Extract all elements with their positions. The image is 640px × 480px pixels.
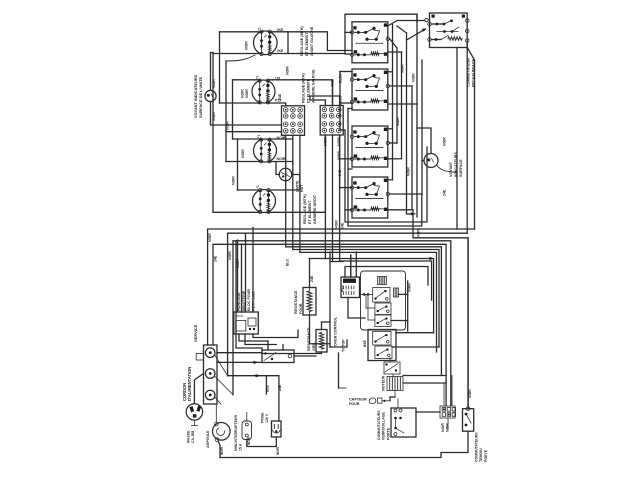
svg-text:GRIL: GRIL: [312, 341, 316, 351]
receptacle prise 120v: [272, 421, 282, 437]
wire lower bus D: [213, 244, 446, 406]
wire grid right col drops: [324, 135, 326, 259]
wire top feed bus: [345, 14, 417, 53]
wire plug up: [194, 374, 203, 404]
svg-text:VOYANT INDICATEURS: VOYANT INDICATEURS: [193, 74, 198, 118]
wire oven control left: [330, 261, 343, 263]
wire to grid row4: [226, 131, 282, 133]
wire lower bus B: [228, 233, 468, 376]
mini switch interrupteur: [242, 421, 252, 440]
wire left bus 4: [232, 80, 234, 139]
terminal block grid right: [320, 106, 343, 136]
svg-text:AVANT GAUCHE: AVANT GAUCHE: [310, 26, 314, 56]
oven lamp ampoule: [213, 423, 231, 441]
svg-text:NOIR: NOIR: [220, 446, 224, 455]
wire mini bottom: [247, 437, 276, 447]
wire S2 out b: [390, 85, 413, 87]
wire lower bus N: [413, 210, 468, 409]
wire oven control bottom: [348, 298, 365, 319]
wire resistance gril top: [321, 322, 323, 330]
svg-text:JKE: JKE: [331, 80, 335, 87]
warmer switch commutateur rechauffage: [430, 13, 468, 48]
wire pilot2 top: [417, 128, 431, 153]
wire S1 diag to 406: [397, 26, 407, 33]
wire jumble b: [236, 241, 262, 354]
power plug prise de courant: [186, 404, 202, 420]
terminal ring top right: [425, 18, 428, 21]
svg-text:NOIR: NOIR: [245, 41, 249, 50]
wire motor to connector horizontal: [403, 375, 446, 377]
wire stub 266: [265, 376, 267, 394]
relay K4: [373, 332, 391, 346]
wire s4 lower-left: [345, 130, 352, 210]
svg-text:*1: *1: [257, 135, 261, 138]
svg-text:ARRIERE GAUCHE: ARRIERE GAUCHE: [311, 69, 315, 103]
svg-text:NOIR: NOIR: [245, 89, 249, 98]
infinite switch S1: [352, 22, 388, 63]
wire S1 out b diagonal: [390, 39, 398, 48]
wire left bus 3: [225, 61, 227, 162]
svg-text:NOIR: NOIR: [277, 157, 286, 161]
wire S2 out c: [388, 103, 417, 105]
svg-text:NOIR: NOIR: [443, 137, 447, 146]
clock assembly horloge: [234, 312, 258, 334]
svg-text:*1: *1: [256, 76, 260, 79]
power supply terminal block: [204, 345, 218, 404]
svg-text:NOIR: NOIR: [247, 436, 251, 445]
wire E4 top: [238, 189, 261, 191]
svg-text:MOTEUR: MOTEUR: [382, 375, 386, 391]
wire switch left links: [340, 72, 345, 131]
wire resistance four bottom: [310, 315, 331, 344]
wire rv 422: [421, 60, 423, 194]
relay board connector strip: [378, 277, 387, 285]
svg-text:RETF. LINE: RETF. LINE: [252, 291, 256, 311]
wire S1 out c: [388, 51, 402, 53]
wire jumble c: [267, 341, 269, 350]
fan relay BA: [384, 362, 400, 374]
wire rv 401: [401, 52, 403, 159]
svg-text:NOIR: NOIR: [335, 220, 339, 229]
wire porte drops: [443, 383, 445, 406]
svg-text:15 A: 15 A: [238, 443, 242, 451]
wire relay board left dots: [367, 293, 370, 296]
svg-text:NOIR: NOIR: [324, 137, 328, 146]
broil element resistance gril: [316, 330, 327, 353]
svg-text:24E: 24E: [278, 384, 282, 391]
wire lower bus K: [347, 267, 428, 286]
infinite switch S2: [352, 69, 388, 110]
wire oven control feeds: [344, 267, 346, 278]
wire S4 out a: [388, 179, 393, 181]
wire row 222: [345, 147, 427, 222]
wire ampoule bottom: [218, 441, 220, 458]
wire E3 bottom: [226, 161, 261, 163]
wire rv 417: [416, 14, 418, 217]
relay K1 pad: [394, 288, 399, 297]
relay K2: [375, 303, 391, 315]
svg-text:24E: 24E: [310, 275, 314, 282]
wire mini top stub: [246, 413, 248, 422]
svg-text:24E: 24E: [443, 189, 447, 196]
wire jumble e: [330, 340, 347, 347]
infinite switch S4: [352, 177, 388, 218]
pilot lamp DS2 surface indicator right: [424, 154, 438, 168]
wire rv 406: [406, 33, 408, 214]
wire small relay right: [294, 355, 316, 357]
terminal block side lug: [196, 354, 203, 361]
svg-text:NOIR: NOIR: [286, 66, 290, 75]
svg-text:BLC: BLC: [286, 258, 290, 266]
svg-text:ET ELEMENT: ET ELEMENT: [305, 32, 309, 56]
svg-text:NOIR: NOIR: [208, 233, 212, 242]
wire warmer diagonal right: [467, 48, 474, 61]
wire S2 out a: [388, 71, 393, 73]
relay board outline: [361, 271, 406, 330]
svg-text:OVEN CONTROL: OVEN CONTROL: [334, 316, 338, 346]
svg-text:*1: *1: [258, 27, 262, 30]
wire S3 out c: [388, 158, 402, 160]
svg-text:NOIR: NOIR: [241, 89, 245, 98]
wire S3 out a: [388, 128, 393, 130]
wire door switch right: [416, 411, 440, 413]
svg-text:24E: 24E: [214, 255, 218, 262]
wire E3 top: [233, 138, 262, 140]
svg-text:AMPOULE: AMPOULE: [206, 430, 210, 448]
svg-text:RESISTANCE: RESISTANCE: [307, 327, 311, 351]
svg-text:REGLAGE (MTH): REGLAGE (MTH): [300, 26, 304, 56]
wire S4 out c: [388, 209, 412, 211]
svg-text:PRISE: PRISE: [261, 412, 265, 423]
wire rv 392: [392, 25, 394, 180]
wire row 226: [348, 169, 422, 226]
svg-text:NOIR: NOIR: [441, 423, 445, 432]
limit switch circle: [279, 168, 291, 180]
door monitor switch: [463, 409, 474, 432]
wire lower bus A: [208, 229, 475, 345]
wire limit right: [292, 175, 300, 190]
wire BA to motor: [392, 374, 394, 377]
wire grid right col tops: [324, 100, 326, 106]
svg-text:REGLAGE (MTH): REGLAGE (MTH): [303, 194, 307, 224]
wire horloge bottom: [239, 334, 268, 341]
wire S1 out a diagonal: [388, 21, 425, 27]
wire motor right: [403, 382, 446, 384]
wire left bus 5: [237, 139, 239, 190]
svg-text:MASSE: MASSE: [187, 430, 191, 443]
svg-text:24E: 24E: [341, 222, 345, 229]
wire grid left col drops: [285, 135, 287, 247]
svg-text:TEMOIN: TEMOIN: [479, 448, 483, 462]
svg-text:NOIR: NOIR: [408, 283, 412, 292]
svg-text:COMMUTATEURS: COMMUTATEURS: [475, 432, 479, 462]
bake element resistance four: [303, 288, 316, 316]
svg-text:FOUR: FOUR: [299, 303, 303, 314]
surface element E4 rear right: [253, 190, 276, 213]
svg-text:RESISTANCE: RESISTANCE: [294, 290, 298, 314]
door latch switch box: [391, 408, 416, 437]
svg-text:NOIR: NOIR: [401, 64, 405, 73]
wire resistance gril bottom: [262, 352, 322, 354]
wire TB mid to prise: [228, 376, 279, 421]
wire motor bottom: [394, 391, 396, 398]
svg-text:NOIR: NOIR: [228, 251, 232, 260]
wire lower bus C: [233, 241, 451, 406]
wire temoin bottom to border: [220, 431, 468, 457]
wire rv 467 warmer right: [466, 43, 468, 234]
svg-text:*1: *1: [256, 185, 260, 188]
wire capteur right: [389, 397, 391, 401]
wire rv 457 warmer bottom: [456, 48, 458, 230]
wire lower bus F: [293, 250, 439, 348]
svg-text:HOT: HOT: [300, 184, 304, 192]
arrow on bus I: [429, 257, 434, 260]
relay K5: [375, 346, 392, 359]
svg-text:NOIR: NOIR: [226, 121, 230, 130]
svg-text:VERROUILLAGE: VERROUILLAGE: [382, 412, 386, 440]
svg-text:PORTE: PORTE: [484, 449, 488, 462]
wire horloge feeds: [237, 240, 239, 312]
wire left bus 2: [219, 32, 221, 103]
svg-text:MINI-INTERRUPTEUR: MINI-INTERRUPTEUR: [234, 415, 238, 451]
wire left bus 1: [212, 53, 214, 213]
wire lower bus J: [340, 261, 432, 300]
svg-text:NOIR: NOIR: [241, 149, 245, 158]
wire right long vertical: [467, 238, 469, 409]
relay K1: [373, 288, 390, 303]
wire pilot top stub: [211, 53, 214, 91]
pilot lamp DS1 surface indicator: [205, 90, 216, 101]
svg-text:120 V: 120 V: [265, 413, 269, 423]
wire arrow to warmer switch: [407, 30, 425, 41]
wire lower bus G: [300, 252, 437, 352]
wire relay right vertical: [407, 281, 409, 331]
svg-text:CA.JE8: CA.JE8: [191, 431, 195, 443]
wire pilot2 right diagonal: [437, 165, 458, 172]
svg-text:NOIR: NOIR: [232, 176, 236, 185]
oven sensor capteur four: [369, 398, 376, 404]
connector block noir: [440, 406, 455, 418]
svg-text:BLOC FOUR: BLOC FOUR: [247, 289, 251, 311]
wire relay outs: [396, 332, 434, 334]
svg-text:PORTE: PORTE: [386, 427, 390, 440]
svg-text:TV/TOP: TV/TOP: [342, 339, 346, 352]
wire ampoule top: [215, 404, 217, 422]
wire resistance four top: [309, 259, 311, 288]
svg-text:NOIR: NOIR: [396, 117, 400, 126]
wire lower bus E: [286, 247, 442, 376]
wire E1 curve to bus: [226, 55, 255, 61]
svg-text:SURFACE: SURFACE: [459, 159, 463, 177]
wire S4 out b: [390, 193, 423, 195]
ground masse: [191, 425, 197, 427]
wire rv 397: [396, 48, 398, 143]
wire TB out right: [217, 352, 262, 354]
wire left long vertical 330: [329, 252, 331, 347]
wire E1 bottom: [213, 53, 261, 55]
wire jumble a: [253, 330, 298, 338]
motor connector strip: [387, 377, 403, 391]
wire lower bus I: [310, 259, 434, 333]
wire rv 412: [411, 86, 413, 210]
wire grid col to s4: [339, 135, 341, 188]
svg-text:NOIR: NOIR: [468, 389, 472, 398]
svg-text:REGLAGE (MTH): REGLAGE (MTH): [302, 73, 306, 103]
svg-text:24E: 24E: [278, 93, 282, 100]
wire rv 474 outer: [474, 60, 476, 229]
svg-text:SURFACE DE L'UNITE: SURFACE DE L'UNITE: [198, 76, 203, 118]
wire relay to BA: [389, 358, 391, 363]
wire E2 top: [233, 79, 260, 81]
relay K4 group outline: [368, 330, 396, 361]
surface element E2 rear left: [252, 80, 275, 103]
wire plug stem: [193, 420, 195, 425]
wire S3 out b: [390, 142, 398, 144]
svg-text:COMMUTATEURS: COMMUTATEURS: [377, 410, 381, 440]
wire TB diag 2: [215, 377, 233, 395]
svg-text:FOUR: FOUR: [349, 402, 360, 406]
wire out bottom a: [407, 213, 415, 215]
infinite switch S3: [352, 126, 388, 167]
wire connector drop: [447, 418, 449, 430]
surface element E3 front right: [254, 139, 277, 162]
svg-text:D'ALIMENTATION: D'ALIMENTATION: [187, 367, 192, 401]
svg-text:NOIR: NOIR: [407, 167, 411, 176]
wire TB diag 3: [215, 397, 221, 404]
svg-text:NOIR: NOIR: [412, 73, 416, 82]
svg-text:NOIR: NOIR: [276, 446, 280, 455]
wire door switch top: [397, 399, 399, 408]
wire pilot2 left: [422, 160, 424, 162]
wire jumble d: [282, 345, 284, 351]
svg-text:JKE: JKE: [277, 49, 284, 53]
wire E1 top: [220, 31, 262, 33]
wire pilot bottom stub: [211, 102, 282, 125]
wire TB out lower: [217, 361, 262, 363]
wire vertical 338: [338, 353, 340, 388]
terminal block grid left: [282, 106, 305, 136]
svg-text:SERVICE: SERVICE: [193, 324, 198, 342]
svg-text:B4E: B4E: [363, 340, 367, 347]
svg-text:ARRIERE DROIT: ARRIERE DROIT: [313, 194, 317, 224]
oven control module: [341, 277, 360, 298]
surface element E1 front left: [253, 31, 277, 55]
svg-text:B2E: B2E: [266, 385, 270, 392]
wire limit left: [276, 162, 279, 175]
wire E2 bottom: [220, 102, 260, 104]
svg-text:VOYANT: VOYANT: [449, 161, 453, 177]
wire E4 bottom: [213, 211, 260, 213]
wire TB diag 1: [215, 356, 228, 376]
relay K3: [375, 315, 391, 327]
small relay module bottom: [262, 350, 294, 363]
